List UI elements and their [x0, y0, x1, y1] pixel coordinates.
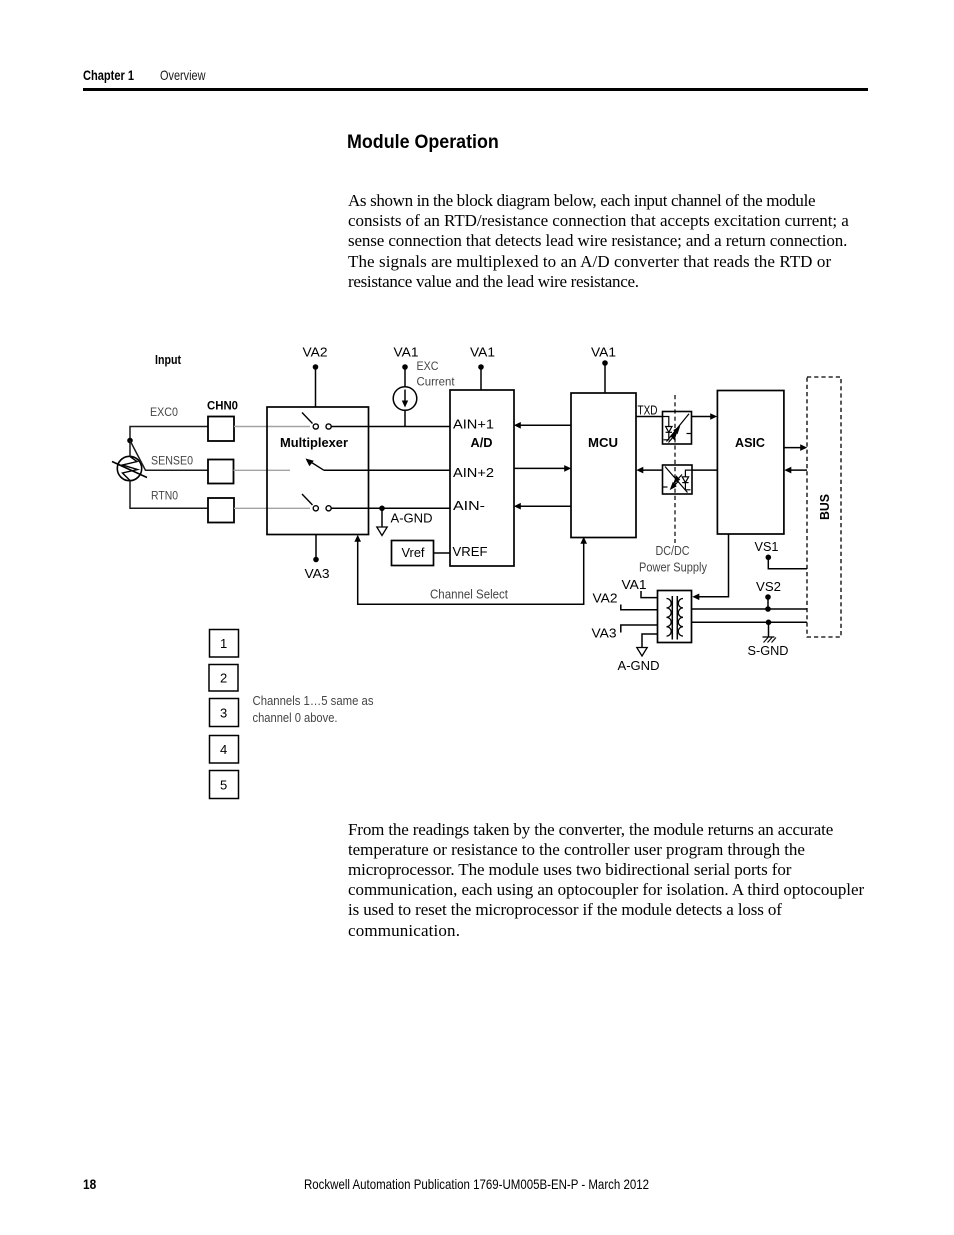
wire MCU to A/D control 2 [514, 503, 571, 510]
node A-GND on AIN- wire [377, 506, 433, 536]
svg-text:SENSE0: SENSE0 [151, 456, 193, 468]
svg-text:RTN0: RTN0 [151, 491, 178, 503]
node: sense tap dot [127, 438, 208, 471]
label Channel Select [430, 588, 508, 602]
switch row1 [302, 413, 331, 430]
footer: publication [304, 1176, 725, 1192]
svg-text:5: 5 [220, 778, 227, 793]
svg-text:2: 2 [220, 671, 227, 686]
svg-text:VA1: VA1 [591, 346, 616, 360]
transformer T1 [658, 591, 692, 643]
callout box 2 [209, 665, 238, 692]
svg-text:Multiplexer: Multiplexer [280, 436, 348, 450]
terminal box EXC0 [208, 417, 234, 442]
svg-text:VA2: VA2 [303, 346, 328, 360]
label channels note [253, 694, 374, 725]
svg-text:VS1: VS1 [755, 540, 779, 554]
svg-text:EXC0: EXC0 [150, 407, 178, 419]
wire: RTD vertical EXC0-RTN0 [130, 427, 208, 509]
svg-text:Input: Input [155, 353, 182, 367]
header: section label [160, 67, 218, 83]
header rule [83, 88, 868, 91]
svg-text:channel 0 above.: channel 0 above. [253, 711, 338, 725]
switch row2 wiper [306, 459, 325, 471]
svg-text:BUS: BUS [818, 494, 832, 520]
svg-text:VA3: VA3 [592, 627, 617, 641]
terminal box SENSE0 [208, 460, 234, 484]
svg-text:3: 3 [220, 706, 227, 721]
MCU box [571, 393, 636, 538]
RTD sensor [112, 456, 147, 480]
svg-text:S-GND: S-GND [748, 644, 789, 658]
svg-text:A-GND: A-GND [618, 659, 660, 673]
svg-text:Current: Current [417, 377, 456, 389]
svg-text:VA2: VA2 [593, 592, 618, 606]
svg-text:Channels 1…5 same as: Channels 1…5 same as [253, 694, 374, 708]
node VA3 transformer [592, 625, 658, 641]
svg-text:EXC: EXC [417, 361, 439, 373]
isolation dashed line [674, 395, 676, 543]
terminal box RTN0 [208, 498, 234, 523]
header: chapter label [83, 67, 148, 83]
svg-text:VS2: VS2 [756, 580, 781, 594]
callout box 4 [210, 736, 239, 764]
wire: gray SENSE0 into multiplexer [234, 469, 291, 471]
switch row3 [302, 494, 331, 511]
label EXC Current [417, 361, 456, 389]
callout box 3 [210, 699, 239, 727]
title: Module Operation [347, 132, 509, 154]
svg-text:VA1: VA1 [470, 346, 495, 360]
wire channel select [354, 535, 587, 605]
svg-text:VA1: VA1 [394, 346, 419, 360]
wire BUS to ASIC [784, 467, 807, 474]
svg-text:A/D: A/D [471, 436, 493, 450]
svg-text:ASIC: ASIC [735, 436, 765, 450]
wire row1 to AIN+1 [331, 426, 450, 428]
paragraph 2 [348, 820, 864, 941]
wire A/D data to MCU [514, 465, 571, 472]
wire opto1 to ASIC [692, 413, 718, 420]
footer: page number [83, 1176, 99, 1192]
label TXD [638, 404, 658, 418]
svg-text:VA1: VA1 [622, 578, 647, 592]
ground A-GND transformer [618, 634, 660, 673]
Vref box [392, 541, 451, 566]
wire MCU TXD to opto1 [636, 416, 663, 418]
ASIC box [717, 391, 784, 535]
current source EXC [393, 346, 418, 427]
paragraph 1 [348, 191, 849, 292]
multiplexer box [267, 407, 369, 535]
wire ASIC to transformer [692, 534, 728, 600]
wire transformer to BUS S-GND [692, 621, 808, 623]
label EXC0 [150, 407, 178, 419]
wire row2 to AIN+2 [324, 469, 450, 471]
svg-text:DC/DC: DC/DC [656, 544, 690, 558]
label Input [155, 353, 182, 367]
label DC/DC Power Supply [639, 544, 708, 575]
svg-text:VREF: VREF [453, 545, 488, 559]
svg-text:TXD: TXD [638, 404, 658, 418]
svg-text:A-GND: A-GND [391, 512, 433, 526]
svg-text:AIN-: AIN- [453, 499, 485, 513]
svg-text:Channel Select: Channel Select [430, 588, 508, 602]
wire transformer to BUS VS2 [692, 608, 808, 610]
label RTN0 [151, 491, 178, 503]
svg-text:VA3: VA3 [305, 567, 330, 581]
wire MCU to A/D control [514, 422, 571, 429]
node VA1 above A/D [470, 346, 495, 391]
wire opto2 to MCU [636, 467, 662, 474]
svg-text:Vref: Vref [402, 546, 426, 560]
svg-text:Power Supply: Power Supply [639, 561, 708, 575]
svg-text:4: 4 [220, 742, 227, 757]
callout box 5 [210, 771, 239, 799]
node VA2 [303, 346, 328, 408]
svg-text:MCU: MCU [588, 436, 618, 450]
node VA1 above MCU [591, 346, 616, 394]
label SENSE0 [151, 456, 193, 468]
A/D converter box [450, 390, 514, 566]
node VS2 [756, 580, 781, 612]
optocoupler U2 [663, 465, 693, 494]
wire ASIC to BUS [784, 444, 807, 451]
svg-text:AIN+2: AIN+2 [453, 466, 494, 480]
node VA2 transformer [593, 592, 658, 610]
wire row3 to AIN- [331, 507, 450, 509]
ground S-GND [748, 620, 789, 659]
BUS dashed box [807, 377, 841, 637]
wire: gray RTN0 to switch [234, 507, 310, 509]
svg-text:AIN+1: AIN+1 [453, 418, 494, 432]
callout box 1 [210, 630, 239, 658]
wire ASIC to opto2 [692, 469, 717, 471]
wire: gray EXC0 to switch [234, 426, 310, 428]
node VA1 transformer [622, 578, 658, 598]
svg-text:CHN0: CHN0 [207, 399, 238, 413]
node VS1 [755, 540, 808, 569]
label CHN0 [207, 399, 238, 413]
node VA3 [305, 535, 330, 582]
svg-text:1: 1 [220, 636, 227, 651]
optocoupler U1 [663, 412, 692, 445]
